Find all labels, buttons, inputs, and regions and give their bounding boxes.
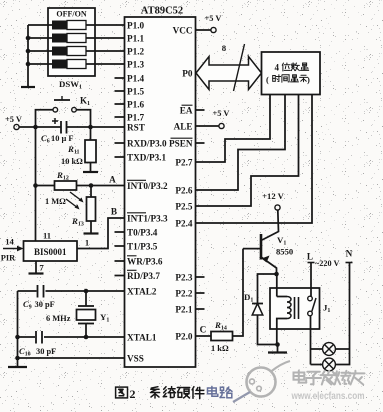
- node A label: [109, 175, 116, 185]
- svg-text:2: 2: [130, 387, 136, 401]
- capacitor C9 label: [23, 299, 55, 311]
- diode D1: [252, 304, 263, 316]
- caption Fig 2: [116, 387, 136, 401]
- relay contact lever: [312, 298, 316, 312]
- svg-text:P2.5: P2.5: [175, 202, 193, 212]
- svg-text:PSEN: PSEN: [169, 139, 193, 149]
- IC pin ALE: [174, 122, 193, 132]
- switch K1 actuator bar: [54, 96, 70, 100]
- photoresistor R13: [87, 197, 96, 221]
- +5V terminal (VCC): [211, 27, 216, 32]
- svg-text:P1.6: P1.6: [127, 100, 145, 110]
- IC pin P1.1: [127, 34, 145, 44]
- wire diode to bottom node: [258, 315, 277, 345]
- terminal L label: [307, 252, 313, 262]
- svg-text:C: C: [200, 325, 207, 335]
- DSW1 switch 3 white key: [67, 47, 86, 56]
- junction dot collector node: [274, 272, 279, 277]
- lamp 2: [323, 358, 336, 371]
- svg-text:WR/P3.6: WR/P3.6: [127, 257, 163, 267]
- IC pin P1.2: [127, 47, 145, 57]
- wire R14 to base: [233, 249, 244, 336]
- ground (DSW bus): [21, 79, 35, 87]
- DSW1 switch 2 black key: [52, 34, 67, 43]
- DSW1 switch 2 white key: [67, 34, 86, 43]
- svg-text:~220 V: ~220 V: [315, 259, 339, 268]
- svg-text:P2.4: P2.4: [175, 219, 193, 229]
- display module box: [262, 52, 321, 95]
- wire P2.5 to display: [196, 95, 299, 207]
- crystal Y1: [77, 306, 96, 324]
- junction dot coil/diode bottom: [275, 342, 280, 347]
- watermark text: [294, 371, 365, 385]
- svg-text:P2.0: P2.0: [175, 332, 193, 342]
- +12V terminal: [275, 205, 280, 210]
- watermark logo: [233, 361, 290, 402]
- svg-text:AT89C52: AT89C52: [141, 6, 183, 17]
- wire lamp1 left: [311, 348, 323, 350]
- wire P2.0 to R14: [196, 335, 212, 337]
- svg-text:P1.2: P1.2: [127, 47, 145, 57]
- svg-text:RD/P3.7: RD/P3.7: [127, 271, 160, 281]
- IC pin XTAL2: [127, 287, 157, 297]
- wire R13 top: [90, 186, 92, 198]
- ground (R13): [84, 232, 99, 234]
- junction dot XTAL1 left: [15, 335, 20, 340]
- ground (BIS0001 pin7): [29, 261, 44, 274]
- transistor V1 base bar: [260, 234, 263, 260]
- IC pin P2.4: [175, 219, 193, 229]
- pin 1 label: [85, 238, 89, 248]
- IC pin P2.2: [175, 289, 204, 299]
- wire crystal bottom: [85, 324, 87, 338]
- crystal value 6 MHz: [46, 314, 71, 323]
- IC BIS0001 body: [24, 241, 78, 261]
- relay contact top: [308, 296, 313, 301]
- junction dot VSS left: [15, 356, 20, 361]
- capacitor C10: [35, 331, 44, 344]
- svg-text:8: 8: [222, 43, 227, 53]
- +12V label: [262, 191, 284, 201]
- IC pin P2.1: [175, 305, 204, 315]
- wire P1.2 from bus through DSW1 to IC: [28, 50, 125, 52]
- pin 11 label: [43, 231, 51, 241]
- pin 14 label: [5, 237, 14, 247]
- IC U1 label AT89C52: [141, 6, 183, 17]
- ground (relay): [268, 345, 287, 353]
- IC pin T1/P3.5: [115, 242, 158, 252]
- IC pin INT1/P3.3: [127, 213, 168, 224]
- IC pin P1.4: [115, 74, 145, 84]
- wire collector node into coil: [276, 274, 278, 297]
- node B label: [111, 207, 117, 217]
- relay core: [295, 297, 299, 319]
- svg-text:8550: 8550: [276, 247, 293, 257]
- transistor V1 emitter arrow: [262, 256, 270, 263]
- +5V terminal (RST): [14, 124, 19, 129]
- display module text line1: [275, 63, 309, 73]
- wire RST node to R11: [90, 127, 92, 140]
- +5V terminal (ALE): [219, 123, 224, 128]
- capacitor C10 label: [19, 346, 56, 358]
- svg-text:4: 4: [275, 63, 280, 73]
- diode D1 designator: [244, 292, 253, 304]
- IC pin EA: [180, 105, 205, 115]
- IC pin P1.6: [115, 100, 145, 110]
- resistor R12 value 1M: [45, 197, 66, 206]
- svg-text:P1.1: P1.1: [127, 34, 145, 44]
- svg-text:T0/P3.4: T0/P3.4: [127, 228, 158, 238]
- DSW1 switch 1 white key: [67, 21, 86, 30]
- caption text: [150, 387, 204, 399]
- svg-text:VCC: VCC: [173, 26, 193, 36]
- wire +12V to emitter: [262, 210, 279, 240]
- ground bus left of DSW1: [27, 25, 29, 79]
- IC pin RD/P3.7: [115, 270, 161, 281]
- svg-text:N: N: [346, 249, 353, 259]
- junction dot R12 left: [33, 183, 38, 188]
- wire BIS0001 out to INT1: [77, 218, 125, 249]
- svg-text:30 pF: 30 pF: [35, 300, 55, 309]
- DSW1 switch 1 black key: [52, 21, 67, 30]
- IC pin XTAL1: [127, 333, 157, 343]
- svg-text:P1.3: P1.3: [127, 60, 145, 70]
- resistor R14 designator: [214, 320, 227, 332]
- photoresistor R13 designator: [71, 216, 84, 228]
- wire +5V rail down to BIS0001 pin11: [35, 127, 37, 241]
- IC pin INT0/P3.2: [127, 180, 168, 191]
- capacitor C9: [37, 285, 46, 298]
- photoresistor R13 light arrows: [66, 192, 84, 210]
- svg-text:www.elecfans.com: www.elecfans.com: [291, 391, 365, 402]
- wire VSS line: [18, 357, 125, 359]
- lamp 1: [323, 343, 336, 356]
- wire P2.7 to display: [196, 95, 271, 163]
- svg-text:6 MHz: 6 MHz: [46, 314, 71, 323]
- bus slash: [234, 44, 245, 91]
- svg-text:10 kΩ: 10 kΩ: [61, 157, 83, 166]
- +5V supply label (RST): [5, 115, 22, 124]
- IC pin RST: [127, 123, 145, 133]
- resistor R12 designator: [56, 170, 69, 182]
- svg-text:7: 7: [39, 263, 44, 273]
- IC pin P0: [182, 69, 193, 79]
- IC pin P2.3: [175, 273, 204, 283]
- relay contact bottom: [308, 311, 313, 316]
- wire C6 to RST pin: [67, 126, 125, 128]
- svg-text:P1.7: P1.7: [127, 113, 145, 123]
- terminal N tick: [346, 262, 353, 264]
- IC pin P1.3: [127, 60, 145, 70]
- IC pin P1.0: [127, 21, 145, 31]
- PIR input arrow: [3, 246, 24, 252]
- IC pin P2.0: [175, 332, 193, 342]
- IC U1 AT89C52 body: [125, 17, 196, 367]
- svg-text:RXD/P3.0: RXD/P3.0: [127, 139, 167, 149]
- wire INT0 line: [36, 185, 125, 187]
- svg-text:P2.1: P2.1: [175, 305, 193, 315]
- svg-text:A: A: [109, 175, 116, 185]
- caption text overlapped: [208, 386, 233, 397]
- svg-text:L: L: [307, 252, 313, 262]
- capacitor C6: [61, 121, 67, 134]
- svg-text:1: 1: [85, 238, 89, 248]
- transistor V1 designator: [277, 235, 286, 247]
- wire crystal ground rail: [17, 291, 19, 366]
- wire crystal top: [85, 291, 87, 306]
- IC pin VCC: [173, 26, 193, 36]
- switch K1 designator: [80, 96, 90, 108]
- resistor R14: [211, 332, 233, 341]
- junction dot R13 top: [89, 183, 94, 188]
- wire collector node to diode: [258, 274, 277, 303]
- resistor R11: [85, 140, 96, 163]
- crystal Y1 designator: [100, 312, 109, 324]
- capacitor C6 value label: [41, 133, 74, 145]
- bus width label 8: [222, 43, 227, 53]
- wire lamp branch left: [311, 364, 323, 366]
- svg-text:P2.3: P2.3: [175, 273, 193, 283]
- wire base to R14 node: [243, 248, 261, 250]
- svg-text:XTAL1: XTAL1: [127, 333, 157, 343]
- svg-text:OFF/ON: OFF/ON: [56, 10, 86, 19]
- wire P2.6 to display: [196, 95, 286, 191]
- resistor R12: [55, 181, 77, 190]
- svg-text:+5 V: +5 V: [5, 115, 22, 124]
- DSW1 switch 4 white key: [67, 60, 86, 69]
- svg-text:P2.6: P2.6: [175, 186, 193, 196]
- wire N to lamps: [336, 263, 350, 365]
- IC pin VSS: [127, 354, 144, 364]
- watermark url: [291, 391, 365, 402]
- svg-text:+12 V: +12 V: [262, 191, 284, 201]
- wire XTAL2 line: [18, 290, 125, 292]
- wire L to contact: [310, 263, 313, 365]
- svg-text:XTAL2: XTAL2: [127, 287, 157, 297]
- IC pin P2.7: [175, 158, 193, 168]
- transistor V1 collector: [261, 257, 277, 272]
- svg-text:P2.2: P2.2: [175, 289, 193, 299]
- wire VCC to +5V: [196, 29, 212, 31]
- svg-text:ALE: ALE: [174, 122, 193, 132]
- wire +5V to C6: [19, 126, 61, 128]
- svg-text:P1.0: P1.0: [127, 21, 145, 31]
- junction dot P1.1 bus: [26, 36, 31, 41]
- svg-text:VSS: VSS: [127, 354, 144, 364]
- resistor R11 value 10k: [61, 157, 83, 166]
- svg-text:P2.7: P2.7: [175, 158, 193, 168]
- DIP switch DSW1 label OFF/ON: [56, 10, 86, 19]
- svg-text:P1.4: P1.4: [127, 74, 145, 84]
- svg-text:1 kΩ: 1 kΩ: [211, 344, 229, 353]
- PIR label: [1, 254, 16, 263]
- svg-text:): ): [307, 75, 310, 85]
- junction dot XTAL2/crystal: [84, 289, 89, 294]
- terminal N label: [346, 249, 353, 259]
- mains voltage label ~220 V: [315, 259, 339, 268]
- svg-text:10 µ F: 10 µ F: [51, 134, 74, 143]
- svg-text:1 MΩ: 1 MΩ: [45, 197, 66, 206]
- svg-text:+5 V: +5 V: [213, 109, 230, 118]
- wire P1.3 from bus through DSW1 to IC: [28, 63, 125, 65]
- svg-text:BIS0001: BIS0001: [34, 247, 67, 257]
- relay J1 designator: [323, 303, 330, 315]
- +5V label (ALE): [213, 109, 230, 118]
- IC pin P1.5: [115, 87, 145, 97]
- svg-text:14: 14: [5, 237, 14, 247]
- junction dot K1 left: [33, 125, 38, 130]
- junction dot XTAL1/crystal: [84, 335, 89, 340]
- IC pin TXD/P3.1: [115, 153, 167, 163]
- transistor V1 value 8550: [276, 247, 293, 257]
- DSW1 switch 3 black key: [52, 47, 67, 56]
- terminal L tick: [308, 262, 315, 264]
- P0 bus double arrow: [196, 57, 262, 90]
- svg-text:P0: P0: [182, 69, 193, 79]
- IC pin P2.6: [175, 186, 193, 196]
- switch K1 contacts: [53, 107, 76, 112]
- junction dot P1.3 bus: [26, 62, 31, 67]
- wire P1.0 from bus through DSW1 to IC: [28, 24, 125, 26]
- DIP switch designator DSW1: [59, 79, 82, 91]
- svg-text:DSW1: DSW1: [59, 79, 82, 91]
- switch K1 wiring: [36, 110, 91, 127]
- IC pin P2.5: [175, 202, 193, 212]
- IC pin RXD/P3.0: [115, 139, 167, 149]
- junction dot P1.2 bus: [26, 49, 31, 54]
- wire R13 bottom: [90, 221, 92, 232]
- DSW1 switch 4 black key: [52, 60, 67, 69]
- +5V label (VCC): [205, 14, 222, 23]
- svg-text:INT0/P3.2: INT0/P3.2: [127, 181, 168, 191]
- IC BIS0001 label: [34, 247, 67, 257]
- wire lamp1 right: [336, 348, 350, 350]
- resistor R14 value 1k: [211, 344, 229, 353]
- svg-text:RST: RST: [127, 123, 145, 133]
- ground (R11): [83, 163, 98, 173]
- wire ALE to +5V: [196, 125, 220, 127]
- resistor R11 designator: [67, 144, 80, 156]
- junction dot K1 right / R11 top: [88, 125, 93, 130]
- IC pin T0/P3.4: [115, 228, 158, 238]
- svg-text:P1.5: P1.5: [127, 87, 145, 97]
- relay coil: [277, 297, 291, 345]
- pin 7 label: [39, 263, 44, 273]
- svg-text:PIR: PIR: [1, 254, 16, 263]
- wire XTAL1 line: [18, 336, 125, 338]
- svg-text:11: 11: [43, 231, 51, 241]
- svg-text:B: B: [111, 207, 117, 217]
- capacitor C6 plus sign: [52, 118, 58, 124]
- svg-text:INT1/P3.3: INT1/P3.3: [127, 214, 168, 224]
- node C label: [200, 325, 207, 335]
- IC pin P1.7: [115, 113, 145, 123]
- IC pin WR/P3.6: [115, 256, 163, 267]
- svg-text:+5 V: +5 V: [205, 14, 222, 23]
- svg-text:TXD/P3.1: TXD/P3.1: [127, 153, 166, 163]
- svg-text:(: (: [266, 75, 269, 85]
- svg-text:EA: EA: [180, 106, 193, 116]
- DIP switch DSW1 box: [48, 8, 95, 76]
- IC pin PSEN: [169, 138, 205, 148]
- wire P2.4 to display: [196, 95, 313, 224]
- wire P1.1 from bus through DSW1 to IC: [28, 37, 125, 39]
- relay J1 box: [270, 288, 320, 329]
- ground (crystal rail): [8, 366, 27, 367]
- svg-text:30 pF: 30 pF: [36, 347, 56, 356]
- svg-text:T1/P3.5: T1/P3.5: [127, 242, 158, 252]
- display module text line2: [266, 75, 310, 85]
